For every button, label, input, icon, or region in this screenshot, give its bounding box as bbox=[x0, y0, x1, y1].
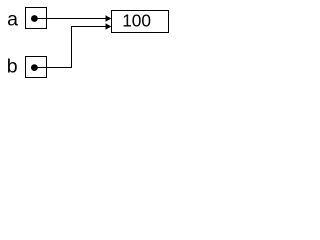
svg-text:100: 100 bbox=[122, 11, 151, 31]
svg-text:a: a bbox=[7, 8, 18, 30]
svg-text:b: b bbox=[7, 56, 18, 78]
